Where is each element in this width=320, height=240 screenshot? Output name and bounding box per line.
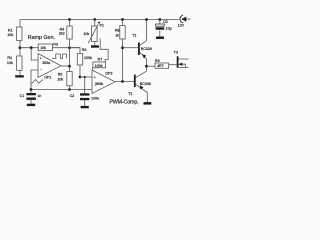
svg-text:T3: T3 [174,50,178,54]
svg-text:OP1: OP1 [44,76,51,80]
node R4 bottom junction [68,46,71,49]
svg-text:+: + [40,57,42,61]
resistor R6 [77,54,82,66]
wire R9 to T3 gate [169,64,177,66]
ground P1 [91,45,99,47]
wire to OP2 plus [80,76,92,78]
wire C1 bottom [30,100,32,104]
svg-text:R7: R7 [98,58,103,62]
svg-text:R5: R5 [58,73,63,77]
wire OP1 out to R6 corner [70,48,81,54]
svg-text:C2: C2 [70,94,75,98]
resistor R2 [17,56,22,70]
svg-text:12V: 12V [178,24,185,28]
wire OP1 minus input [31,70,38,90]
wire to R9 [147,65,156,67]
svg-text:C1: C1 [20,94,25,98]
node emitter junction [145,65,148,68]
ground R2 [15,75,24,77]
svg-text:1k: 1k [115,33,119,37]
wire top supply rail [20,19,179,21]
sawtooth symbol [32,80,43,84]
svg-text:P1: P1 [100,24,104,28]
capacitor C2 [80,93,89,95]
wire R1 top drop [19,20,21,28]
svg-text:PWM-Comp.: PWM-Comp. [109,99,138,105]
wire R2 bottom [19,70,21,75]
connector 12V plug [180,15,183,23]
ground C5 [156,37,164,40]
op-amp OP1 [38,54,61,78]
wire divider to R3 [20,47,38,49]
node rail P1 [93,18,96,21]
square wave symbol [52,54,66,58]
svg-text:10µ: 10µ [166,27,172,31]
resistor R9 [155,63,169,68]
wire C2 bottom [84,100,86,106]
svg-text:393b: 393b [95,82,103,86]
node T1 base tap [121,46,124,49]
ground T2 [144,102,152,105]
node R8 OP2 out junction [121,80,124,83]
wire T1 emitter down [146,59,148,71]
svg-text:R2: R2 [7,56,12,60]
svg-text:2k2: 2k2 [59,32,65,36]
wire R5 stubs [69,66,71,89]
wire ramp rail [31,89,92,91]
svg-text:+: + [94,75,96,79]
transistor T2 [134,75,136,88]
wire C5 bottom [159,30,161,37]
wire C2 drop [84,77,86,93]
wire P1 bottom [94,42,96,46]
wire OP1 output [61,65,70,67]
svg-text:BC338: BC338 [140,82,151,86]
wire R6 bottom [79,65,81,77]
svg-text:10k: 10k [83,32,89,36]
svg-text:100n: 100n [91,96,99,100]
svg-text:10k: 10k [57,78,63,82]
node R6 C2 junction [79,76,82,79]
ground C2 [81,106,89,108]
svg-text:−: − [40,68,42,72]
wire OP2 output [115,80,134,82]
op-amp OP2 [92,70,115,94]
wire R1 bottom [19,41,21,57]
wire R4 bottom [69,39,71,66]
node R5 bottom junction [68,88,71,91]
transistor T3 mosfet [177,56,179,67]
svg-text:C5: C5 [163,20,168,24]
node rail C5 [158,18,161,21]
svg-text:1n: 1n [37,94,41,98]
resistor R3 [38,44,52,51]
node rail R8 [121,18,124,21]
svg-text:T1: T1 [132,33,136,37]
svg-text:R8: R8 [115,29,120,33]
node C1 junction [30,88,33,91]
wire T2 emitter down [146,93,148,103]
svg-text:R6: R6 [82,48,87,52]
potentiometer P1 [92,26,98,42]
svg-text:10k: 10k [7,61,13,65]
svg-text:10k: 10k [40,46,46,50]
wire R8 top [122,20,124,26]
node C2 tap [84,76,86,78]
node rail T1 [145,18,148,21]
resistor R5 [67,72,72,86]
svg-text:OP2: OP2 [105,71,112,75]
svg-text:4R7: 4R7 [157,64,164,68]
node OP1 plus tap [30,46,33,49]
node rail R4 [68,18,71,21]
node R1/R2 junction [19,46,22,49]
wire P1 wiper to R7 [100,39,108,63]
resistor R7 [93,62,106,68]
wire OP1 plus input [31,48,38,60]
svg-text:R9: R9 [155,59,160,63]
resistor R4 [67,26,72,39]
wire R8 bottom to OP2 out [122,39,124,81]
wire R7 to OP2 corner [91,68,93,70]
svg-text:T2: T2 [128,92,132,96]
wire R4 top [69,20,71,27]
capacitor C5 electrolytic [156,24,165,26]
svg-text:100k: 100k [84,56,92,60]
resistor R8 [120,26,125,40]
svg-text:Ramp Gen.: Ramp Gen. [28,35,55,41]
svg-text:393a: 393a [42,61,50,65]
wire R3 to R4 node [53,47,81,49]
node OP1 output junction [68,65,71,68]
resistor R1 [17,27,22,41]
svg-text:R3: R3 [53,42,58,46]
ground C1 [27,104,35,106]
wire T1 collector up [146,20,148,41]
svg-text:BC328: BC328 [141,47,152,51]
wire T1 base [123,47,139,49]
svg-text:10k: 10k [7,33,13,37]
wire C5 top [159,20,161,25]
svg-text:100k: 100k [95,64,103,68]
wire P1 top [94,20,96,27]
capacitor C1 [26,93,36,95]
wire C1 drop [30,90,32,94]
transistor T1 [138,43,140,56]
